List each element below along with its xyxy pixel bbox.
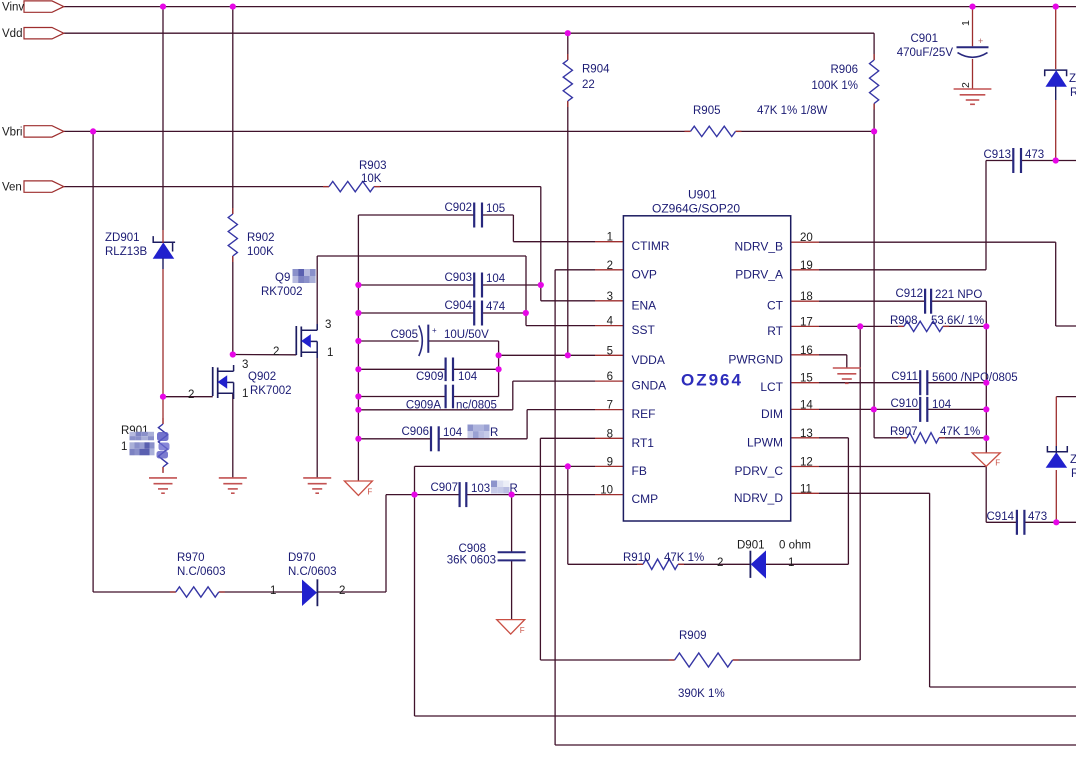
wire PWRGND to ground	[819, 355, 847, 368]
wire Vbri drop to R970	[93, 131, 176, 592]
svg-text:Z: Z	[1069, 73, 1076, 85]
F-ground right bus	[972, 453, 1000, 468]
wire SST to pin 4	[526, 325, 595, 327]
wire C913 left	[986, 160, 1013, 162]
wire FB to R910	[568, 466, 643, 564]
svg-text:C910: C910	[891, 398, 919, 410]
wire Q903 drain up	[317, 256, 526, 330]
wire bottom exit upper	[415, 715, 1076, 717]
wire Q902 gate from node	[163, 396, 213, 398]
wire C910 right	[927, 408, 986, 410]
transistor Q903	[261, 269, 333, 359]
resistor R904	[563, 54, 610, 107]
wire C906 left	[358, 438, 431, 440]
svg-text:RT1: RT1	[632, 436, 655, 450]
svg-text:19: 19	[800, 260, 813, 272]
ground PWRGND	[833, 368, 861, 383]
svg-text:104: 104	[932, 399, 952, 411]
diode D970	[270, 552, 345, 606]
wire C902 right to CTIMR	[482, 215, 595, 242]
wire C909A left	[358, 396, 445, 398]
svg-text:NDRV_D: NDRV_D	[734, 491, 783, 505]
svg-text:R905: R905	[693, 105, 721, 117]
ground under R901	[149, 478, 177, 493]
wire NDRV_B line	[819, 242, 1076, 326]
svg-text:R906: R906	[831, 64, 859, 76]
svg-text:CT: CT	[767, 299, 784, 313]
svg-text:F: F	[520, 626, 525, 635]
wire R909 right leg	[733, 326, 860, 660]
ground under Q902	[219, 478, 247, 493]
wire R970 to D970	[219, 591, 303, 593]
svg-text:ENA: ENA	[632, 298, 657, 312]
capacitor C912	[896, 288, 983, 314]
svg-text:F: F	[995, 458, 1000, 467]
wire DIM to C910	[819, 408, 920, 410]
wire OVP from corner	[555, 269, 595, 271]
wire Ven to R903	[64, 186, 329, 188]
svg-text:ZD901: ZD901	[105, 232, 140, 244]
svg-text:9: 9	[607, 456, 613, 468]
wire CT to C912	[819, 300, 925, 302]
wire bottom exit lower	[555, 744, 1076, 746]
svg-text:PDRV_A: PDRV_A	[735, 267, 783, 281]
svg-text:Vinv: Vinv	[2, 2, 24, 14]
capacitor C913	[984, 148, 1045, 173]
svg-text:nc/0805: nc/0805	[456, 400, 497, 412]
wire PDRV_C line	[819, 466, 986, 468]
svg-text:C911: C911	[891, 371, 918, 383]
svg-text:NDRV_B: NDRV_B	[735, 240, 783, 254]
capacitor C907	[431, 481, 518, 508]
svg-text:18: 18	[800, 291, 813, 303]
wire D901 to LPWM leg	[766, 438, 849, 565]
svg-text:22: 22	[582, 79, 595, 91]
wire GNDA jog	[358, 381, 595, 410]
svg-text:D970: D970	[288, 552, 316, 564]
wire C905 left	[358, 340, 418, 342]
wire ZD901 to R901	[162, 269, 164, 418]
capacitor C902	[445, 202, 506, 228]
svg-text:100K 1%: 100K 1%	[811, 80, 858, 92]
svg-text:R: R	[1070, 87, 1076, 99]
wire C904 left	[358, 312, 474, 314]
wire R903 to ENA corner	[374, 186, 541, 188]
svg-text:REF: REF	[632, 407, 656, 421]
op-amp U901 OZ964G/SOP20	[600, 188, 813, 522]
wire vertical Vinv to ZD901	[162, 7, 164, 230]
svg-text:2: 2	[188, 389, 194, 401]
svg-text:390K 1%: 390K 1%	[678, 688, 725, 700]
wire PDRV_A line	[819, 161, 986, 270]
svg-text:F: F	[367, 488, 372, 497]
svg-text:20: 20	[800, 232, 813, 244]
resistor R903	[323, 160, 387, 192]
wire C907 segment left	[386, 495, 460, 592]
wire DIM to R907	[874, 409, 907, 437]
capacitor C914	[987, 510, 1048, 535]
wire cap bus vertical	[357, 215, 359, 481]
wire R906 bottom	[873, 104, 875, 132]
capacitor C905 electrolytic	[391, 325, 490, 356]
wire C914 right exit	[1024, 521, 1076, 523]
svg-text:1: 1	[960, 20, 972, 26]
svg-text:100K: 100K	[247, 246, 274, 258]
svg-text:R902: R902	[247, 232, 275, 244]
port Ven	[2, 181, 64, 194]
resistor R970	[170, 552, 226, 597]
svg-text:C905: C905	[391, 329, 419, 341]
wire FB drop	[414, 466, 416, 716]
svg-text:VDDA: VDDA	[632, 353, 665, 367]
svg-text:+: +	[432, 326, 437, 335]
svg-text:1: 1	[121, 441, 127, 453]
svg-text:+: +	[978, 36, 983, 46]
svg-text:R908: R908	[890, 315, 918, 327]
svg-text:C912: C912	[896, 288, 924, 300]
wire C901 top	[972, 7, 974, 47]
svg-text:C901: C901	[911, 33, 939, 45]
svg-text:GNDA: GNDA	[632, 379, 667, 393]
svg-text:C908: C908	[459, 543, 487, 555]
svg-text:4: 4	[607, 316, 614, 328]
zener ZD912 right bottom	[1047, 446, 1076, 480]
capacitor C901 electrolytic	[897, 20, 989, 88]
svg-text:R903: R903	[359, 160, 387, 172]
svg-text:C907: C907	[431, 482, 459, 494]
svg-text:C909: C909	[416, 371, 444, 383]
transistor Q902	[188, 359, 292, 401]
svg-text:U901: U901	[688, 188, 717, 202]
wire Vinv net top rail	[64, 6, 1076, 8]
svg-text:R970: R970	[177, 552, 205, 564]
wire R907 right	[939, 437, 986, 439]
diode D901 0 ohm	[717, 540, 811, 578]
resistor R901	[121, 418, 170, 473]
svg-text:5600 /NPO/0805: 5600 /NPO/0805	[932, 372, 1018, 384]
svg-text:0 ohm: 0 ohm	[779, 540, 811, 552]
svg-text:36K 0603: 36K 0603	[447, 555, 496, 567]
svg-text:2: 2	[273, 346, 279, 358]
svg-text:1: 1	[607, 232, 613, 244]
ground under Q903	[303, 478, 331, 493]
svg-text:10: 10	[600, 485, 613, 497]
resistor R907	[890, 426, 945, 443]
wire NDRV_D line	[819, 493, 1076, 687]
svg-text:12: 12	[800, 457, 813, 469]
svg-text:8: 8	[607, 428, 613, 440]
svg-text:17: 17	[800, 316, 813, 328]
wire RT to R908	[819, 325, 904, 327]
wire C912 right jog	[931, 301, 986, 326]
wire Q903 gate	[233, 354, 296, 356]
svg-text:C902: C902	[445, 202, 473, 214]
port Vdd	[2, 28, 64, 41]
svg-text:473: 473	[1028, 511, 1047, 523]
wire C909 right	[453, 368, 499, 370]
wire Vdd rail	[64, 32, 874, 34]
svg-text:PDRV_C: PDRV_C	[735, 464, 784, 478]
svg-text:2: 2	[960, 82, 972, 88]
wire C902 left	[358, 214, 474, 216]
svg-text:221 NPO: 221 NPO	[935, 289, 982, 301]
svg-text:CMP: CMP	[632, 492, 659, 506]
wire right gnd bus	[985, 326, 987, 453]
wire OVP vertical long	[554, 270, 556, 745]
wire Q903 source to ground	[316, 352, 318, 478]
wire C904 right	[482, 312, 526, 314]
svg-text:3: 3	[325, 319, 331, 331]
svg-text:470uF/25V: 470uF/25V	[897, 47, 954, 59]
svg-text:DIM: DIM	[761, 407, 783, 421]
svg-text:47K 1% 1/8W: 47K 1% 1/8W	[757, 105, 827, 117]
svg-text:C913: C913	[984, 149, 1012, 161]
svg-text:104: 104	[443, 427, 463, 439]
svg-text:CTIMR: CTIMR	[632, 239, 670, 253]
svg-text:Vdd: Vdd	[2, 28, 22, 40]
svg-text:15: 15	[800, 373, 813, 385]
wire FB line	[415, 465, 596, 467]
resistor R909	[669, 630, 739, 700]
svg-text:2: 2	[717, 557, 723, 569]
svg-text:474: 474	[486, 301, 506, 313]
svg-text:PWRGND: PWRGND	[728, 352, 783, 366]
capacitor C904	[445, 300, 506, 326]
wire R904 vertical	[567, 33, 569, 355]
svg-text:16: 16	[800, 345, 813, 357]
capacitor C910	[891, 397, 952, 422]
wire R902 to Q902 node	[232, 256, 234, 355]
svg-text:1: 1	[270, 585, 276, 597]
svg-text:7: 7	[607, 400, 613, 412]
svg-text:OZ964: OZ964	[681, 371, 743, 390]
resistor R906	[811, 54, 878, 110]
svg-text:R: R	[1071, 468, 1076, 480]
svg-text:RK7002: RK7002	[250, 385, 292, 397]
capacitor C908	[447, 543, 526, 567]
capacitor C909A	[406, 385, 497, 412]
wire C909 left	[358, 368, 445, 370]
svg-text:LPWM: LPWM	[747, 435, 783, 449]
svg-text:R904: R904	[582, 64, 610, 76]
wire C905 right	[428, 341, 498, 397]
wire LPWM from pin	[819, 437, 848, 439]
svg-text:RT: RT	[767, 324, 783, 338]
svg-text:5: 5	[607, 345, 613, 357]
svg-text:OZ964G/SOP20: OZ964G/SOP20	[652, 202, 740, 216]
svg-text:3: 3	[242, 359, 248, 371]
svg-text:R910: R910	[623, 552, 651, 564]
svg-text:C909A: C909A	[406, 400, 441, 412]
wire C913 right exit	[1021, 160, 1076, 162]
svg-text:11: 11	[800, 483, 812, 495]
svg-text:D901: D901	[737, 540, 765, 552]
wire D970 to FB node	[317, 591, 386, 593]
svg-text:Z: Z	[1070, 454, 1076, 466]
resistor R905	[685, 105, 828, 137]
zener ZD911 right top	[1045, 70, 1076, 100]
svg-text:473: 473	[1025, 149, 1044, 161]
svg-text:10K: 10K	[361, 173, 382, 185]
wire C908 drop	[511, 495, 513, 620]
F-ground under C908	[497, 620, 525, 636]
wire zener ZD911 branch	[1055, 7, 1057, 161]
wire R905 to R906 junction	[736, 130, 875, 132]
resistor R908	[890, 315, 949, 332]
svg-text:R907: R907	[890, 426, 918, 438]
value R908 53.6K	[931, 315, 984, 327]
wire C901 bottom	[972, 59, 974, 89]
svg-text:2: 2	[607, 260, 613, 272]
port Vbri	[2, 126, 64, 139]
svg-text:2: 2	[339, 585, 345, 597]
svg-text:SST: SST	[632, 323, 656, 337]
svg-text:10U/50V: 10U/50V	[444, 329, 489, 341]
wire C903 left	[358, 284, 474, 286]
svg-text:N.C/0603: N.C/0603	[288, 566, 337, 578]
wire Q902 source to ground	[232, 393, 234, 478]
wire R910 to D901	[678, 563, 750, 565]
svg-text:R909: R909	[679, 630, 707, 642]
wire LCT to C911	[819, 382, 920, 384]
capacitor C903	[445, 272, 506, 298]
F-ground cap bus	[344, 481, 372, 497]
svg-text:FB: FB	[632, 464, 647, 478]
wire Vbri-DIM vertical	[873, 131, 875, 409]
capacitor C906	[402, 425, 499, 452]
svg-text:14: 14	[800, 399, 813, 411]
svg-text:103: 103	[471, 483, 490, 495]
capacitor C909	[416, 358, 478, 384]
resistor R902	[228, 208, 274, 262]
capacitor C911	[891, 370, 1017, 395]
svg-text:3: 3	[607, 291, 613, 303]
wire C903 right	[482, 284, 541, 286]
svg-text:C906: C906	[402, 426, 430, 438]
svg-text:104: 104	[458, 371, 478, 383]
svg-text:Q9: Q9	[275, 272, 290, 284]
svg-text:RLZ13B: RLZ13B	[105, 246, 148, 258]
svg-text:47K 1%: 47K 1%	[664, 552, 704, 564]
wire R908 right	[943, 325, 986, 327]
svg-text:Ven: Ven	[2, 182, 22, 194]
svg-text:1: 1	[788, 557, 794, 569]
wire F to C914	[986, 467, 1017, 523]
svg-text:1: 1	[242, 388, 248, 400]
U901 pin stubs	[595, 242, 819, 495]
svg-text:RK7002: RK7002	[261, 286, 303, 298]
svg-text:Vbri: Vbri	[2, 126, 22, 138]
resistor R910	[623, 552, 704, 570]
svg-text:R: R	[490, 427, 498, 439]
svg-text:Q902: Q902	[248, 371, 276, 383]
ground under C901	[954, 89, 992, 104]
svg-text:C903: C903	[445, 272, 473, 284]
wire RT1 to R909 leg	[540, 438, 595, 660]
wire ENA to pin 3	[541, 300, 595, 302]
wire C911 right	[927, 382, 986, 384]
svg-text:1: 1	[327, 347, 333, 359]
svg-text:C904: C904	[445, 300, 473, 312]
value R907 47K	[940, 426, 980, 438]
wire C906 right to REF	[439, 410, 595, 439]
wire ENA vertical from Ven	[540, 187, 542, 301]
svg-text:53.6K/ 1%: 53.6K/ 1%	[931, 315, 984, 327]
svg-text:OVP: OVP	[632, 267, 657, 281]
svg-text:N.C/0603: N.C/0603	[177, 566, 226, 578]
wire SST vertical	[525, 256, 527, 326]
wire zener ZD912 branch	[1056, 397, 1076, 523]
wire VDDA line	[499, 354, 595, 356]
svg-text:LCT: LCT	[760, 380, 783, 394]
svg-text:104: 104	[486, 273, 506, 285]
svg-text:6: 6	[607, 371, 613, 383]
svg-text:47K 1%: 47K 1%	[940, 426, 980, 438]
svg-text:13: 13	[800, 428, 813, 440]
svg-text:C914: C914	[987, 511, 1015, 523]
wire R909 line left	[540, 659, 674, 661]
wire R906 top	[873, 33, 875, 60]
zener ZD901	[105, 230, 175, 269]
svg-text:105: 105	[486, 203, 505, 215]
wire vertical Vinv to R902	[232, 7, 234, 214]
port Vinv	[2, 1, 64, 14]
wire C907 right to CMP	[466, 494, 595, 496]
wire C909A right	[453, 396, 499, 398]
wire Vbri rail left of R905	[64, 130, 691, 132]
